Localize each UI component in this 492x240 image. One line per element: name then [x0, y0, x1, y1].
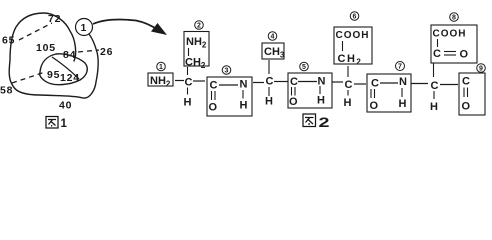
- bond NH2 to alpha carbon 1: [175, 80, 184, 82]
- bond alpha carbon 3 to peptide box 7: [354, 83, 366, 85]
- svg-text:N: N: [240, 79, 248, 91]
- bond side chain to alpha carbon 3: [347, 66, 349, 77]
- svg-text:H: H: [184, 97, 192, 109]
- svg-text:C: C: [345, 79, 353, 91]
- box 4 side chain CH3: [262, 43, 285, 60]
- svg-text:C: C: [431, 80, 439, 92]
- svg-text:O: O: [460, 49, 469, 61]
- svg-text:C: C: [290, 76, 298, 88]
- svg-text:O: O: [289, 96, 298, 108]
- label 1 circled: [157, 62, 166, 71]
- svg-text:9: 9: [479, 66, 483, 73]
- bond alpha carbon 3 to H: [347, 90, 349, 96]
- svg-text:C: C: [185, 77, 193, 89]
- bond alpha carbon 2 to peptide box 5: [274, 81, 288, 83]
- svg-text:8: 8: [452, 15, 456, 22]
- svg-text:7: 7: [398, 64, 402, 71]
- label 4 circled: [268, 32, 277, 41]
- svg-text:H: H: [430, 101, 438, 113]
- svg-text:124: 124: [60, 72, 80, 84]
- svg-text:2: 2: [319, 115, 330, 130]
- svg-text:N: N: [318, 76, 326, 88]
- label 7 circled: [396, 62, 405, 71]
- box 5 peptide bond: [288, 73, 332, 108]
- bond peptide 7 to alpha carbon 4: [411, 83, 428, 85]
- caption figure 2 glyph tu: [303, 114, 316, 127]
- node 1 terminus circle: [76, 19, 93, 36]
- disulfide bond 84-26 dashed: [78, 50, 99, 52]
- svg-text:C: C: [210, 80, 218, 92]
- label 8 circled: [450, 13, 459, 22]
- svg-text:N: N: [399, 76, 407, 88]
- bond side chain to alpha carbon 1: [187, 67, 189, 75]
- bond alpha carbon 1 to peptide box 3: [193, 80, 205, 82]
- svg-text:COOH: COOH: [336, 30, 370, 41]
- caption figure 1 glyph tu: [46, 117, 58, 129]
- figure 1 chain strand through loop: [52, 57, 79, 79]
- box 2 side chain NH2-CH2: [184, 32, 209, 71]
- svg-text:C: C: [462, 76, 470, 88]
- bond alpha carbon 4 to H: [433, 91, 435, 99]
- svg-text:26: 26: [100, 46, 113, 58]
- box 9 terminal carboxyl C=O: [459, 73, 485, 115]
- svg-text:H: H: [265, 96, 273, 108]
- svg-text:6: 6: [353, 14, 357, 21]
- svg-text:65: 65: [2, 35, 15, 47]
- svg-text:3: 3: [225, 68, 229, 75]
- svg-text:H: H: [240, 100, 248, 112]
- disulfide bond 58-95 dashed: [12, 72, 45, 83]
- box 1 amino group NH2: [148, 73, 173, 89]
- bond alpha carbon 2 to H: [268, 87, 270, 96]
- box 3 peptide bond: [207, 77, 252, 116]
- svg-text:1: 1: [159, 64, 163, 71]
- label 6 circled: [350, 12, 359, 21]
- box 8 side chain COOH-C=O: [431, 25, 477, 63]
- svg-text:72: 72: [48, 13, 61, 25]
- svg-text:1: 1: [81, 22, 88, 34]
- bond peptide 5 to alpha carbon 3: [332, 81, 343, 83]
- svg-text:95: 95: [47, 69, 60, 81]
- bond alpha carbon 4 to carboxyl box 9: [440, 84, 458, 86]
- svg-text:C: C: [371, 78, 379, 90]
- disulfide bond 65-72 dashed: [19, 23, 52, 40]
- arrow to figure 2: [93, 20, 167, 35]
- svg-text:4: 4: [271, 34, 275, 41]
- svg-text:O: O: [209, 102, 218, 114]
- svg-text:105: 105: [36, 42, 56, 54]
- svg-text:84: 84: [63, 49, 76, 61]
- label 5 circled: [300, 62, 309, 71]
- figure 1 protein chain outline: [9, 13, 98, 98]
- svg-text:5: 5: [302, 64, 306, 71]
- svg-text:2: 2: [197, 23, 201, 30]
- svg-text:C: C: [266, 76, 274, 88]
- figure 1 inner loop: [40, 54, 88, 85]
- svg-text:H: H: [317, 95, 325, 107]
- label 3 circled: [222, 66, 231, 75]
- svg-text:O: O: [462, 101, 471, 113]
- svg-text:40: 40: [59, 100, 72, 112]
- bond peptide 3 to alpha carbon 2: [253, 82, 264, 84]
- box 7 peptide bond: [367, 74, 411, 112]
- svg-text:58: 58: [0, 85, 13, 97]
- bond side chain to alpha carbon 4: [433, 63, 435, 77]
- svg-text:1: 1: [61, 118, 68, 130]
- bond alpha carbon 1 to H: [187, 88, 189, 95]
- svg-text:H: H: [399, 98, 407, 110]
- box 6 side chain COOH-CH2: [334, 27, 372, 67]
- bond side chain to alpha carbon 2: [268, 60, 270, 74]
- svg-text:COOH: COOH: [433, 29, 467, 40]
- svg-text:O: O: [370, 100, 379, 112]
- label 2 circled: [195, 21, 204, 30]
- svg-text:H: H: [344, 97, 352, 109]
- label 9 circled: [477, 64, 486, 73]
- svg-text:C: C: [433, 48, 441, 60]
